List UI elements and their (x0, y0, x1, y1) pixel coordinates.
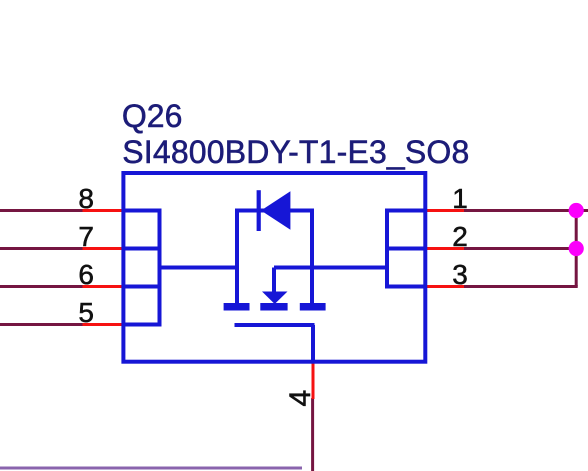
svg-text:3: 3 (452, 259, 468, 290)
svg-text:5: 5 (78, 297, 94, 328)
svg-text:7: 7 (78, 221, 94, 252)
svg-text:1: 1 (452, 183, 468, 214)
svg-text:Q26: Q26 (122, 98, 182, 134)
svg-text:6: 6 (78, 259, 94, 290)
svg-text:4: 4 (284, 390, 317, 407)
svg-text:2: 2 (452, 221, 468, 252)
svg-text:SI4800BDY-T1-E3_SO8: SI4800BDY-T1-E3_SO8 (122, 134, 469, 170)
svg-text:8: 8 (78, 183, 94, 214)
